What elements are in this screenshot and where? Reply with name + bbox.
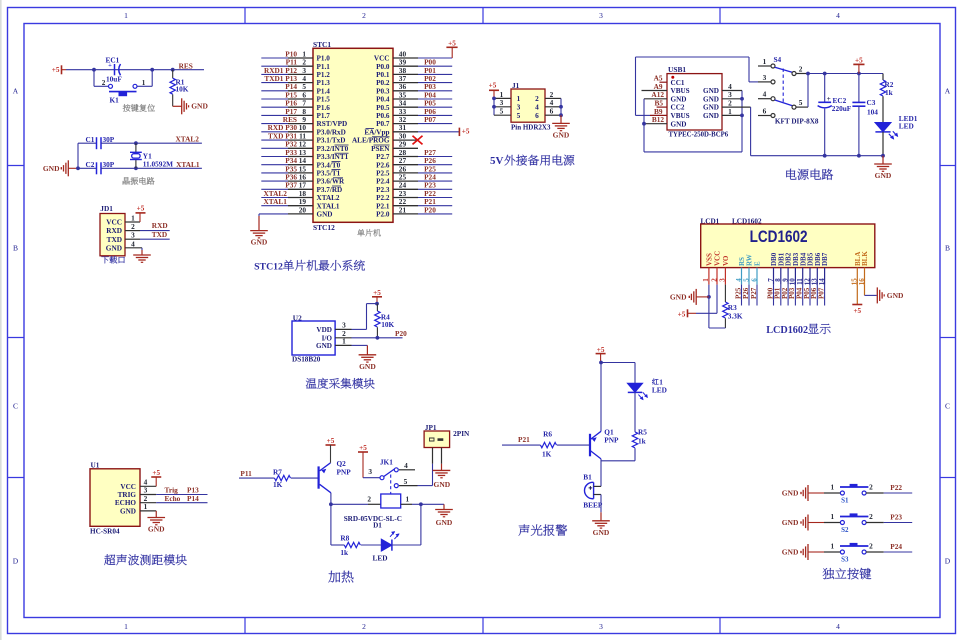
svg-text:C3: C3: [867, 98, 876, 107]
svg-text:GND: GND: [251, 238, 268, 247]
pin 12 (MCU): [288, 147, 313, 149]
wire Q1 collector: [600, 459, 602, 487]
wire VBUS loop top: [636, 56, 750, 58]
wire BLK to gnd: [864, 285, 866, 296]
switch JK1 pin5: [394, 484, 398, 488]
svg-text:GND: GND: [43, 164, 60, 173]
LCD pin names (rotated): [706, 251, 870, 266]
pin 3 (JD1): [125, 238, 140, 240]
svg-text:DB7: DB7: [821, 252, 829, 266]
MCU pin names: [317, 55, 391, 219]
pin 31 (MCU): [393, 131, 418, 133]
svg-text:P0.6: P0.6: [376, 112, 390, 120]
svg-text:P0.7: P0.7: [376, 120, 390, 128]
pin A9 (USB1): [642, 90, 668, 92]
power +5 (MCU VCC): [446, 46, 457, 48]
button S1: [840, 491, 844, 495]
wire B12 down: [643, 124, 645, 152]
svg-text:3: 3: [599, 622, 603, 631]
wire net P02: [418, 82, 452, 84]
wire EA/Vpp to +5: [418, 131, 459, 133]
wire U2 gnd: [352, 344, 368, 346]
svg-text:5: 5: [500, 107, 504, 116]
pin 2 (MCU): [288, 65, 313, 67]
wire net P34: [261, 164, 288, 166]
svg-text:GND: GND: [782, 518, 799, 527]
svg-text:6: 6: [535, 111, 539, 120]
svg-text:GND: GND: [703, 87, 719, 95]
LCD data wires: [742, 285, 825, 306]
pin 21 (MCU): [393, 213, 418, 215]
ground (JP1): [441, 464, 443, 471]
svg-text:5: 5: [517, 111, 521, 120]
svg-text:21: 21: [399, 205, 407, 214]
node Y1 bottom: [134, 166, 138, 170]
pin 1 (JD1): [125, 221, 140, 223]
svg-text:220uF: 220uF: [832, 104, 852, 113]
svg-text:B: B: [13, 244, 18, 253]
node EC1 left: [92, 68, 96, 72]
power +5 (BLA): [856, 285, 858, 305]
node Y1 top: [134, 141, 138, 145]
wire net RXD1 P12: [261, 73, 288, 75]
svg-text:GND: GND: [436, 518, 453, 527]
svg-text:+5: +5: [853, 307, 861, 315]
pin A5 (USB1): [660, 81, 668, 83]
svg-text:B: B: [945, 244, 950, 253]
pin 8 (MCU): [288, 114, 313, 116]
pin 4 (U1): [140, 485, 156, 487]
pin 24 (MCU): [393, 188, 418, 190]
node B12: [642, 122, 646, 126]
node VSS: [707, 295, 711, 299]
ground (J1): [560, 115, 562, 123]
svg-text:P21: P21: [518, 435, 530, 444]
resistor R6: [541, 442, 557, 447]
button S2: [840, 521, 844, 525]
svg-text:+5: +5: [448, 39, 456, 47]
LCD net labels (rotated): [734, 287, 825, 299]
svg-text:PNP: PNP: [604, 436, 619, 445]
svg-text:4: 4: [404, 461, 408, 470]
pin 1 (JP1): [432, 448, 434, 464]
svg-text:GND: GND: [670, 293, 687, 302]
svg-text:EA/Vpp: EA/Vpp: [364, 128, 389, 136]
svg-text:XTAL1: XTAL1: [176, 160, 200, 169]
svg-text:P3.7/RD: P3.7/RD: [317, 186, 343, 194]
wire R7 to Q2: [291, 477, 318, 479]
title 声光报警: [519, 524, 530, 535]
svg-text:JK1: JK1: [380, 457, 393, 466]
svg-text:D: D: [945, 557, 951, 566]
svg-text:P3.1/TxD: P3.1/TxD: [317, 137, 346, 145]
svg-text:R5: R5: [638, 428, 647, 437]
svg-text:P0.2: P0.2: [376, 79, 390, 87]
pin 15 (MCU): [288, 172, 313, 174]
pin 5 (J1): [494, 114, 511, 116]
node J1-6: [559, 113, 563, 117]
node relay-1: [419, 502, 423, 506]
svg-text:5: 5: [799, 98, 803, 107]
relay dashed link: [390, 475, 392, 495]
node usb pin1: [740, 114, 744, 118]
power +5 (U1): [155, 477, 157, 486]
node rail-+5: [857, 72, 861, 76]
svg-text:P1.1: P1.1: [317, 63, 331, 71]
node I/O: [376, 336, 380, 340]
svg-text:STC1: STC1: [313, 40, 331, 49]
svg-text:P3.4/T0: P3.4/T0: [317, 161, 341, 169]
node R1 top: [171, 68, 175, 72]
pin A12 (USB1): [644, 98, 667, 100]
svg-text:1k: 1k: [638, 436, 647, 445]
ground (LCD BLK): [876, 287, 878, 303]
wire CC loop: [643, 99, 645, 124]
svg-text:CC2: CC2: [671, 104, 685, 112]
pin 26 (MCU): [393, 172, 418, 174]
switch S4 pole 2: [758, 98, 771, 100]
svg-text:P2.0: P2.0: [376, 211, 390, 219]
pin 3 (MCU): [288, 73, 313, 75]
power +5 (Q2): [326, 444, 336, 446]
wire collector to R5: [601, 460, 635, 462]
svg-text:XTAL1: XTAL1: [317, 202, 340, 210]
svg-text:+5: +5: [359, 444, 367, 452]
power +5 (JK1): [358, 451, 368, 453]
svg-text:LED: LED: [899, 121, 914, 130]
svg-text:VCC: VCC: [120, 483, 136, 491]
wire net P37: [261, 188, 288, 190]
label 下载口: [101, 256, 108, 263]
pin 38 (MCU): [393, 73, 418, 75]
pin 2 (U1): [140, 502, 156, 504]
svg-text:GND: GND: [553, 130, 570, 139]
svg-text:1K: 1K: [542, 449, 552, 458]
pin 33 (MCU): [393, 114, 418, 116]
pin 27 (MCU): [393, 164, 418, 166]
node Q2-relay: [329, 502, 333, 506]
svg-text:10K: 10K: [176, 85, 189, 94]
wire net P21: [418, 205, 452, 207]
svg-text:GND: GND: [875, 171, 892, 180]
pin 19 (MCU): [288, 205, 313, 207]
svg-text:P0.1: P0.1: [376, 71, 390, 79]
node rail-S4: [806, 72, 810, 76]
svg-text:2: 2: [869, 512, 873, 521]
capacitor C3: [858, 74, 860, 103]
title 超声波测距模块: [104, 554, 115, 565]
wire VDD: [352, 328, 367, 330]
svg-text:GND: GND: [316, 342, 332, 350]
wire gnd to S1: [808, 492, 824, 494]
pin 1 (U1): [140, 510, 156, 512]
switch JK1 pin3: [380, 476, 384, 480]
svg-text:10K: 10K: [381, 320, 394, 329]
svg-text:1K: 1K: [273, 480, 283, 489]
svg-text:P3.6/WR: P3.6/WR: [317, 178, 346, 186]
pin 4 (J1): [545, 106, 561, 108]
label H1: [652, 379, 658, 385]
svg-text:2: 2: [367, 495, 371, 504]
wire relay to gnd: [421, 503, 444, 505]
node bot-C3: [857, 154, 861, 158]
svg-text:GND: GND: [703, 104, 719, 112]
svg-text:TXD: TXD: [152, 230, 167, 239]
svg-text:+: +: [827, 95, 831, 103]
svg-text:STC12: STC12: [313, 223, 335, 232]
svg-text:2: 2: [869, 482, 873, 491]
pin 2 (U2): [335, 337, 351, 339]
wire net P20: [418, 213, 452, 215]
wire gnd vertical: [77, 143, 79, 168]
svg-text:6: 6: [763, 107, 767, 116]
svg-text:4: 4: [763, 90, 767, 99]
pin 13 (MCU): [288, 156, 313, 158]
svg-text:+5: +5: [855, 56, 863, 64]
svg-text:P26: P26: [742, 287, 750, 299]
svg-text:KFT DIP-8X8: KFT DIP-8X8: [775, 117, 819, 125]
power +5 (LCD): [688, 312, 697, 314]
capacitor C2: [78, 167, 97, 169]
wire gnd loop bottom: [644, 151, 742, 153]
svg-text:P2.7: P2.7: [376, 153, 390, 161]
wire Q2 collector: [330, 493, 332, 545]
wire to JK1-3: [363, 477, 380, 479]
wire B1 to gnd: [600, 495, 602, 513]
svg-text:P11: P11: [240, 469, 252, 478]
svg-text:1: 1: [124, 11, 128, 20]
wire GND (pin20): [259, 213, 288, 215]
resistor R1: [172, 70, 174, 79]
node J1-4: [559, 105, 563, 109]
wire net P22: [418, 197, 452, 199]
wire net P24: [418, 180, 452, 182]
svg-text:GND: GND: [148, 525, 165, 534]
power +5 (J1): [489, 89, 499, 91]
svg-text:P2.1: P2.1: [376, 202, 390, 210]
svg-text:GND: GND: [782, 488, 799, 497]
title 温度采集模块: [306, 378, 317, 388]
svg-text:1: 1: [830, 541, 834, 550]
wire net P36: [261, 180, 288, 182]
resistor R2: [882, 74, 884, 81]
svg-text:EC1: EC1: [106, 55, 120, 64]
pin 2 (USB1): [722, 106, 751, 108]
svg-text:1: 1: [142, 79, 146, 87]
pin 35 (MCU): [393, 98, 418, 100]
svg-text:P0.5: P0.5: [376, 104, 390, 112]
wire VCC to +5: [418, 57, 452, 59]
wire net P17: [261, 114, 288, 116]
wire JP1 to JK1-5: [432, 464, 434, 486]
capacitor C1: [78, 142, 97, 144]
pin 1 (USB1): [722, 114, 742, 116]
wire net P16: [261, 106, 288, 108]
svg-text:HC-SR04: HC-SR04: [90, 528, 120, 536]
pin 1 (MCU): [288, 57, 313, 59]
pin 1 (J1): [494, 97, 511, 99]
svg-text:2PIN: 2PIN: [453, 429, 470, 438]
pin 1 (U2): [335, 344, 351, 346]
svg-text:D: D: [13, 557, 19, 566]
svg-text:VCC: VCC: [374, 55, 390, 63]
svg-text:P2.3: P2.3: [376, 186, 390, 194]
svg-text:GND: GND: [887, 291, 904, 300]
wire net P11: [261, 65, 288, 67]
power +5 (reset): [61, 65, 63, 74]
svg-text:ALE/PROG: ALE/PROG: [352, 137, 390, 145]
resistor R3: [724, 285, 726, 302]
capacitor EC2: [824, 74, 826, 103]
pin 32 (MCU): [393, 123, 418, 125]
svg-text:RST/VPD: RST/VPD: [317, 120, 348, 128]
wire TXD: [140, 238, 170, 240]
svg-text:C2: C2: [86, 160, 95, 169]
power +5 (U2): [372, 296, 382, 298]
capacitor EC1: [114, 64, 116, 75]
svg-text:P2.5: P2.5: [376, 170, 390, 178]
svg-text:LCD1602: LCD1602: [750, 227, 808, 246]
wire +5 to RES node: [66, 69, 204, 71]
svg-text:5: 5: [404, 477, 408, 486]
wire net P33: [261, 156, 288, 158]
svg-text:P3.3/INT1: P3.3/INT1: [317, 153, 349, 161]
svg-text:XTAL1: XTAL1: [264, 197, 288, 206]
svg-text:P1.0: P1.0: [317, 55, 331, 63]
wire net P04: [418, 98, 452, 100]
svg-text:2: 2: [102, 79, 106, 87]
label 单片机: [357, 229, 364, 236]
svg-text:P24: P24: [890, 542, 902, 551]
svg-text:LCD1602: LCD1602: [766, 325, 808, 336]
pin 37 (MCU): [393, 82, 418, 84]
ground (U2): [366, 345, 368, 354]
svg-text:USB1: USB1: [668, 65, 686, 74]
svg-text:R3: R3: [728, 303, 737, 312]
wire Q1 emitter: [600, 363, 602, 432]
svg-text:S4: S4: [774, 55, 782, 64]
svg-text:LED: LED: [372, 553, 387, 562]
pin 3 (J1): [494, 106, 511, 108]
wire VSS to gnd: [708, 285, 710, 328]
svg-text:P1.4: P1.4: [317, 87, 331, 95]
svg-text:P2.6: P2.6: [376, 161, 390, 169]
wire net P01: [418, 73, 452, 75]
transistor Q2: [318, 466, 320, 488]
svg-text:1: 1: [144, 502, 148, 511]
wire net P27: [418, 156, 452, 158]
power +5 (EA/Vpp): [458, 128, 460, 136]
pin 2 (J1): [545, 97, 561, 99]
title 电源电路: [786, 169, 796, 180]
svg-text:P07: P07: [424, 115, 436, 124]
wire Echo: [156, 502, 207, 504]
relay JK1 coil: [381, 494, 401, 508]
resistor R7: [275, 475, 291, 480]
svg-text:+5: +5: [52, 66, 60, 74]
svg-text:10uF: 10uF: [106, 75, 122, 84]
svg-text:1: 1: [728, 107, 732, 116]
svg-text:1: 1: [342, 337, 346, 346]
svg-text:GND: GND: [359, 362, 376, 371]
svg-text:PNP: PNP: [337, 467, 352, 476]
svg-text:GND: GND: [120, 507, 136, 515]
pin 22 (MCU): [393, 205, 418, 207]
wire gnd to S2: [808, 522, 824, 524]
wire net P10: [261, 57, 288, 59]
svg-text:BEEP: BEEP: [583, 501, 603, 510]
svg-text:C: C: [945, 401, 950, 410]
crystal Y1: [135, 143, 137, 152]
label 按键复位: [123, 104, 131, 111]
wire J1 left bus: [493, 98, 495, 115]
svg-text:K1: K1: [110, 96, 120, 105]
svg-text:Pin HDR2X3: Pin HDR2X3: [511, 124, 551, 132]
wire VBUS loop left: [635, 57, 637, 115]
ground (power rail): [882, 156, 884, 164]
ground (JD1): [141, 248, 143, 250]
svg-text:GND: GND: [703, 112, 719, 120]
svg-text:P0.3: P0.3: [376, 87, 390, 95]
pin 39 (MCU): [393, 65, 418, 67]
svg-text:C1: C1: [86, 135, 95, 144]
pin 34 (MCU): [393, 106, 418, 108]
wire net P35: [261, 172, 288, 174]
pin 3 (USB1): [722, 98, 742, 100]
node rail-EC2: [823, 72, 827, 76]
wire gnd to S3: [808, 551, 824, 553]
wire relay coil 1: [401, 503, 412, 505]
svg-text:P3.0/RxD: P3.0/RxD: [317, 128, 346, 136]
wire net RES: [261, 123, 288, 125]
wire S4-5 to rail: [807, 74, 809, 108]
svg-text:A: A: [13, 86, 19, 95]
svg-text:P14: P14: [187, 494, 199, 503]
svg-text:Echo: Echo: [165, 494, 181, 503]
svg-text:104: 104: [867, 107, 878, 116]
wire net P26: [418, 164, 452, 166]
svg-text:+5: +5: [462, 128, 470, 136]
node usb pin3: [740, 97, 744, 101]
pin 30 (MCU): [393, 139, 418, 141]
svg-text:ECHO: ECHO: [115, 499, 137, 507]
svg-text:3: 3: [599, 11, 603, 20]
wire R8 row left: [331, 544, 344, 546]
svg-text:VO: VO: [722, 255, 730, 266]
svg-text:1: 1: [830, 512, 834, 521]
svg-text:D1: D1: [373, 522, 382, 530]
wire net TXD P31: [261, 139, 288, 141]
wire net P06: [418, 114, 452, 116]
wire +5 to LED H1: [601, 362, 635, 364]
no-ERC marker (pin 30): [413, 136, 423, 145]
svg-text:GND: GND: [191, 102, 208, 111]
LCD pin stubs: [709, 268, 865, 285]
ground (B1): [600, 512, 602, 521]
pin 7 (MCU): [288, 106, 313, 108]
svg-text:GND: GND: [671, 95, 687, 103]
LCD pin numbers (rotated): [702, 278, 866, 286]
pin 10 (MCU): [288, 131, 313, 133]
pin 4 (USB1): [722, 90, 742, 92]
wire net RXD P30: [261, 131, 288, 133]
node alarm +5: [599, 361, 603, 365]
resistor R5: [632, 432, 637, 448]
wire VCC to +5: [716, 285, 718, 314]
svg-text:+5: +5: [137, 205, 145, 213]
svg-text:GND: GND: [703, 95, 719, 103]
wire S3 to P24: [866, 551, 884, 553]
